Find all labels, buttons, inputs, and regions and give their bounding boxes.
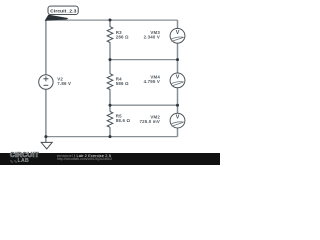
wire left rail upper (top rail to V2 +pin) — [45, 20, 47, 75]
svg-text:V: V — [176, 30, 180, 36]
wire bottom rail (ground node to VM2-) — [46, 136, 178, 138]
circuitlab logo — [10, 153, 39, 159]
wire R4 bottom lead to node C — [109, 89, 111, 105]
svg-text:V: V — [176, 115, 180, 121]
junction node B (VM3/VM4) — [176, 58, 179, 61]
wire node C to VM2 +pin — [177, 105, 179, 113]
footer title line — [57, 154, 111, 158]
wire node C to R5 top lead — [109, 105, 111, 111]
footer url line — [57, 158, 112, 162]
junction node bottom (R5 / bottom rail) — [109, 135, 112, 138]
wire VM4 -pin to node C — [177, 88, 179, 105]
svg-text:7.86 V: 7.86 V — [57, 81, 71, 86]
svg-text:4.795 V: 4.795 V — [144, 79, 160, 84]
junction node C (VM4/VM2) — [176, 104, 179, 107]
wire node C horizontal (R4/R5 junction to VM4/VM2 junction) — [110, 104, 178, 106]
wire node B to VM4 +pin — [177, 60, 179, 73]
voltmeter VM4 — [170, 73, 185, 88]
voltmeter VM2 — [170, 113, 185, 128]
svg-text:Circuit_2.3: Circuit_2.3 — [50, 8, 77, 13]
junction node C (R4/R5) — [109, 104, 112, 107]
wire top rail corner to VM3 +pin — [177, 20, 179, 28]
callout pointer tail — [45, 15, 69, 21]
svg-text:2.340 V: 2.340 V — [144, 34, 160, 39]
svg-text:725.0 mV: 725.0 mV — [140, 119, 160, 124]
resistor R4 — [107, 74, 113, 90]
resistor R5 — [107, 112, 113, 128]
wire R3 top lead stub — [109, 20, 111, 27]
junction node B (R3/R4) — [109, 58, 112, 61]
wire VM2 -pin to bottom rail corner — [177, 128, 179, 137]
footer bar — [0, 153, 220, 166]
resistor R3 — [107, 27, 113, 43]
callout label Circuit_2.3 — [48, 6, 78, 14]
wire left rail lower (V2 -pin to ground node) — [45, 89, 47, 136]
wire node B horizontal (R3/R4 junction to VM3/VM4 junction) — [110, 59, 178, 61]
svg-text:286 Ω: 286 Ω — [116, 35, 129, 40]
junction node ground — [44, 135, 47, 138]
wire R5 bottom lead to bottom rail — [109, 127, 111, 136]
wire top rail (V2+ to VM3+) — [46, 19, 178, 21]
wire VM3 -pin to node B — [177, 43, 179, 59]
ground — [41, 137, 52, 149]
svg-text:586 Ω: 586 Ω — [116, 81, 129, 86]
junction node A (top rail / R3 branch) — [109, 19, 112, 22]
wire node B to R4 top lead — [109, 60, 111, 74]
svg-text:88.6 Ω: 88.6 Ω — [116, 118, 131, 123]
svg-text:V: V — [176, 75, 180, 81]
voltmeter VM3 — [170, 28, 185, 43]
voltage source V2 — [39, 75, 53, 89]
wire R3 bottom lead to node B — [109, 42, 111, 59]
